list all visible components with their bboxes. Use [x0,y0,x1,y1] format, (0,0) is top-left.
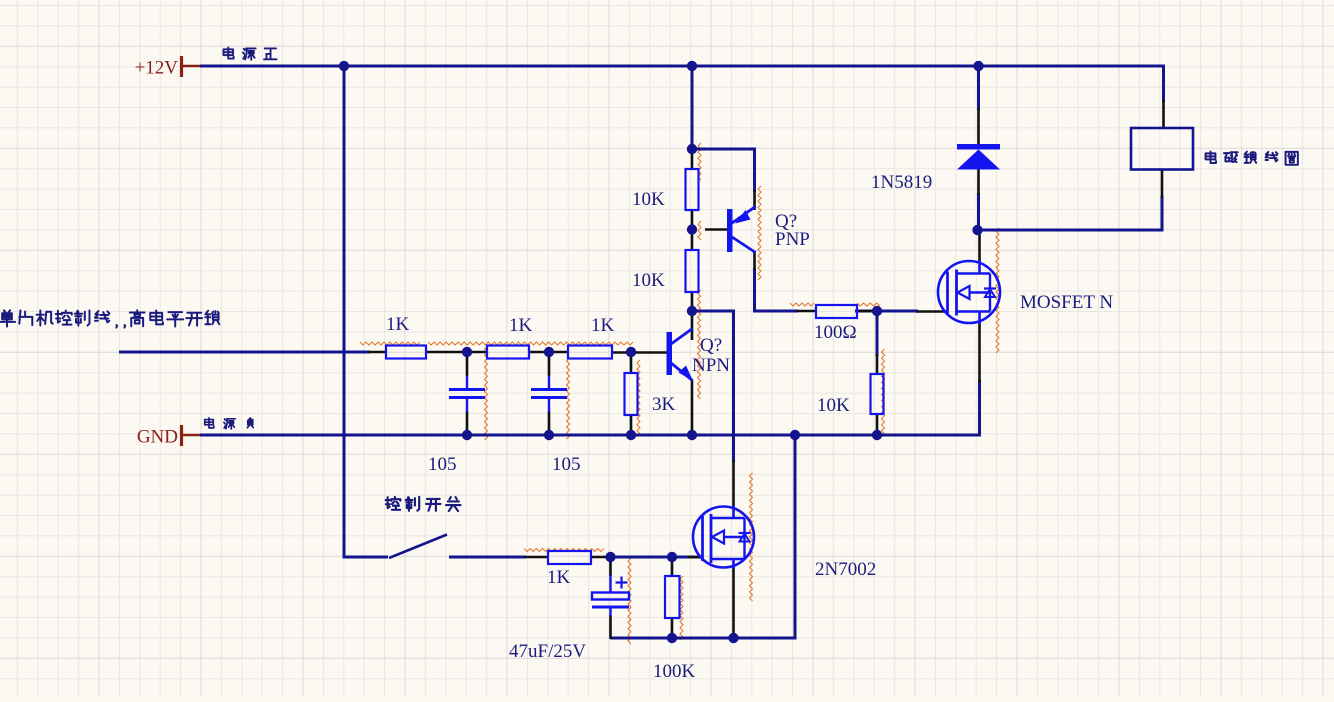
wire diode bottom [977,193,980,232]
junction GND/C2 [544,430,554,440]
wire GND rail [200,434,981,437]
wire coil return horizontal [978,229,1164,232]
ERC marker right of C3 [628,558,631,644]
junction GND/R6 [626,430,636,440]
pin R1 left [368,351,386,354]
pin R6 bottom [630,415,633,436]
ERC marker right of C1 [485,346,488,440]
svg-text:2N7002: 2N7002 [815,559,876,580]
svg-text:1K: 1K [547,567,571,588]
pin R9 left [524,556,548,559]
wire control input [119,351,370,354]
pin D1 anode [977,169,980,195]
capacitor C2 105 [531,388,567,391]
junction control/C2 [544,347,554,357]
junction +12V/switch drop [339,61,349,71]
ERC marker right of 2N7002 [750,473,753,601]
pin R9 right [591,556,612,559]
junction NPN collector node [687,306,697,316]
capacitor C3 47uF/25V [592,593,629,600]
resistor R3 1K [568,346,612,359]
svg-text:GND: GND [137,427,178,448]
pin 2N7002 gate [688,556,702,559]
ERC marker left of R7 [790,303,814,306]
pin R6 top [630,352,633,373]
pin R8 bottom [876,414,879,436]
pin D1 cathode [977,108,980,146]
junction diode anode node [972,225,982,235]
pin C3 bottom [609,615,612,639]
pin NPN collector [691,311,694,340]
pin R7 right [857,310,878,313]
junction bottom/2N7002 source [728,633,738,643]
ERC marker right of R7 [857,303,880,306]
ERC marker right of R10 100K [680,576,683,640]
wire switch to R9 [449,556,526,559]
power port GND [180,425,183,446]
wire diode top [977,66,980,110]
pin R4 bottom / R5 top [691,210,694,250]
resistor R5 10K [686,250,699,292]
resistor R7 100 [816,305,857,318]
net label dianyuanzheng 电源正 [223,47,233,58]
pin C1 bottom [466,411,469,436]
pin PNP base [705,228,727,231]
junction GND/R8 [872,430,882,440]
junction PNP base node [687,224,697,234]
junction R9/C3 node [605,552,615,562]
resistor R1 1K [386,346,426,359]
pin coil top [1162,100,1165,128]
wire R7 to gate node [855,310,877,313]
pin MOSFET N drain [978,231,981,262]
diode D1 1N5819 [957,144,1000,150]
resistor R10 100K [665,576,680,618]
net label dianyuanfu 电源负 [205,418,214,428]
transistor Q3 2N7002 [693,507,754,568]
wire emitter feed [692,149,755,192]
svg-text:Q?: Q? [700,335,722,356]
pin 2N7002 drain [732,460,735,507]
pin PNP collector [753,251,756,270]
pin R8 top [876,354,879,374]
ERC marker right of R4 top pin [698,143,701,180]
ERC marker along control wire [360,342,420,345]
transistor Q4 MOSFET N [938,261,1000,323]
pin R3 right + NPN base [612,351,667,354]
svg-text:3K: 3K [652,394,676,415]
svg-text:10K: 10K [632,189,665,210]
resistor R8 10K [871,374,884,414]
pin C2 top [548,352,551,376]
junction GND/NPN emitter [687,430,697,440]
ERC marker right of NPN collector/emitter [698,290,701,399]
wire divider from rail [691,66,694,152]
junction +12V/diode [973,61,983,71]
svg-text:MOSFET N: MOSFET N [1020,292,1113,313]
ERC marker right of PNP [758,186,761,280]
pin NPN emitter [691,380,694,436]
capacitor C1 105 [449,388,485,391]
pin R10 bottom [671,618,674,639]
junction control/C1 [462,347,472,357]
pin C1 top [466,352,469,376]
power port +12V [180,56,183,77]
resistor R2 1K [487,346,529,359]
wire +12V top rail [200,65,1164,68]
svg-text:105: 105 [552,454,581,475]
svg-text:NPN: NPN [692,355,730,376]
ERC marker right of R6 3K [637,360,640,437]
wire R8 upper [876,310,879,357]
label control line 单片机控制线,，高电平开锁 [0,310,15,326]
svg-text:105: 105 [428,454,457,475]
pin R2-R3 junction leads [529,351,568,354]
transistor Q2 NPN [667,332,673,375]
pin 2N7002 source [732,567,735,639]
ERC marker right of R8 10K [882,349,885,437]
pin R7 left [796,310,816,313]
junction GND/C1 [462,430,472,440]
label switch kongzhikaiguan 控制开关 [386,497,401,510]
junction GND/bottom return [790,430,800,440]
wire MOSFET source riser [978,380,981,437]
ERC marker right of C2 [567,358,570,439]
inductor coil box [1131,128,1193,170]
wire node to 2N7002 drain [691,311,734,462]
svg-text:1K: 1K [509,315,533,336]
wire bottom return [611,434,796,639]
junction +12V/divider [687,61,697,71]
pin PNP emitter [753,190,756,210]
svg-text:1K: 1K [386,314,410,335]
svg-text:+12V: +12V [135,58,179,79]
resistor R6 3K [625,373,638,415]
wire +12V drop to switch [343,66,346,559]
junction bottom/R10 [667,633,677,643]
resistor R4 10K [686,169,699,210]
transistor Q1 PNP [727,209,733,252]
pin R1-R2 junction leads [426,351,487,354]
junction gate node MOSFET N [872,306,882,316]
svg-text:47uF/25V: 47uF/25V [509,641,586,662]
pin coil bottom [1161,170,1164,199]
pin C2 bottom [548,411,551,436]
wire top-right drop to coil [1162,65,1165,103]
svg-text:100K: 100K [653,661,696,682]
wire PNP collector drop [753,268,756,313]
svg-text:1K: 1K [591,315,615,336]
wire gate MOSFET N [877,310,918,313]
wire R9 to C3 node [611,556,704,559]
junction control/R6 [626,347,636,357]
svg-text:100Ω: 100Ω [814,322,857,343]
junction gate node 2N7002 [667,552,677,562]
svg-text:1N5819: 1N5819 [871,172,932,193]
label coil dianci suoxianquan 电磁锁线圈 [1206,151,1217,163]
wire coil bottom [1161,196,1164,232]
ERC marker right of R4/R5 node [698,221,701,240]
svg-text:10K: 10K [632,270,665,291]
ERC marker above R9 1K [524,549,604,552]
junction divider top / emitter feed [687,144,697,154]
svg-text:10K: 10K [817,395,850,416]
pin R4 top [691,150,694,169]
pin R5 bottom [691,292,694,312]
pin MOSFET N gate [916,310,947,313]
ERC marker along RC filter wire [428,342,633,345]
wire to R7 [753,310,798,313]
resistor R9 1K [548,551,591,564]
svg-text:PNP: PNP [775,229,810,250]
pin MOSFET N source [978,322,981,382]
switch S1 control [389,535,447,559]
ERC marker right of MOSFET N [996,228,999,353]
pin R10 top [671,557,674,576]
pin C3 top [609,557,612,576]
